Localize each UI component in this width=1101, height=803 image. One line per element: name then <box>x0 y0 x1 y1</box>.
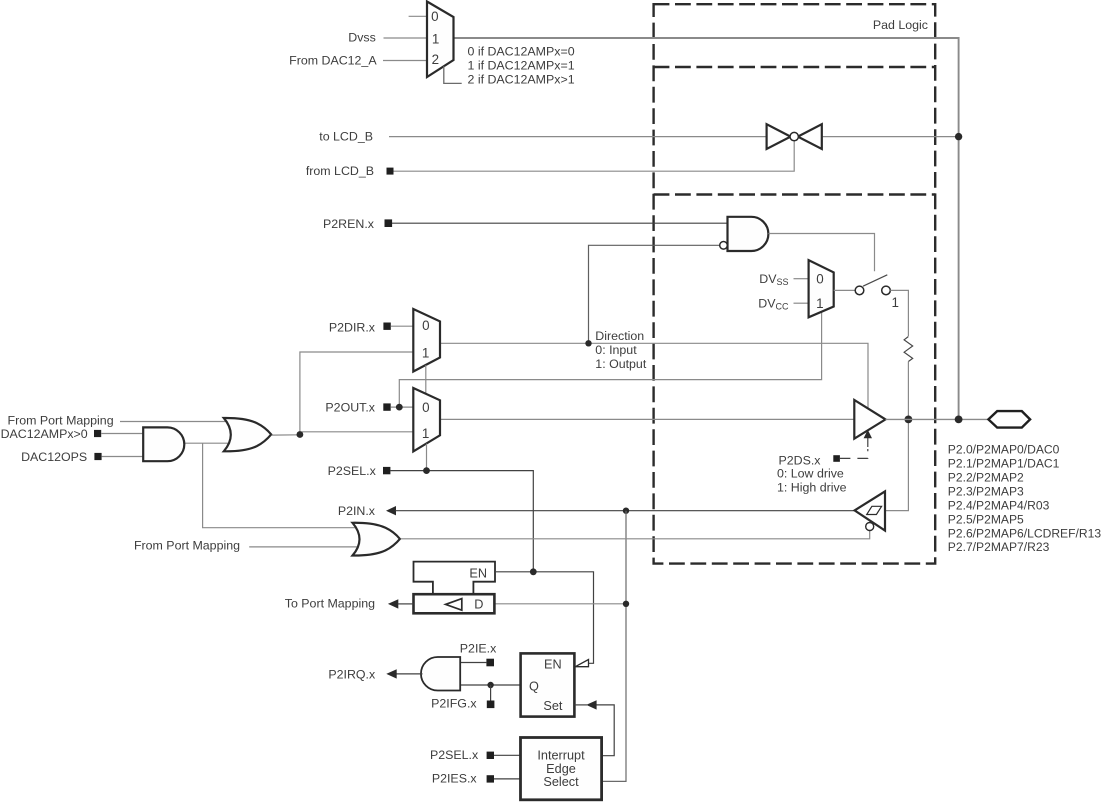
svg-text:P2DS.x: P2DS.x <box>778 453 821 467</box>
svg-text:Select: Select <box>543 775 579 789</box>
dashed divider LCD section bottom <box>654 193 936 195</box>
svg-text:P2IE.x: P2IE.x <box>460 642 497 656</box>
wire P2IN vertical to interrupt logic <box>602 511 626 782</box>
EN triangle pin on U12 <box>575 660 588 667</box>
mux U3 pull resistor source select <box>809 260 834 317</box>
svg-text:1: High drive: 1: High drive <box>777 481 847 495</box>
square terminal P2DS.x <box>833 455 840 462</box>
svg-text:P2SEL.x: P2SEL.x <box>430 748 479 762</box>
svg-text:2 if DAC12AMPx>1: 2 if DAC12AMPx>1 <box>468 73 575 87</box>
arrow P2IRQ.x <box>386 669 396 678</box>
svg-text:From Port Mapping: From Port Mapping <box>134 538 240 552</box>
svg-text:Direction: Direction <box>595 329 644 343</box>
label drive strength legend <box>777 467 847 495</box>
svg-text:1 if DAC12AMPx=1: 1 if DAC12AMPx=1 <box>468 59 575 73</box>
and gate U2 pullup enable <box>720 217 769 251</box>
node Q line at P2IFG <box>487 682 493 688</box>
svg-text:P2IFG.x: P2IFG.x <box>431 697 477 711</box>
wire stub U1 input 0 <box>409 15 427 17</box>
wire U11 output to To Port Mapping <box>398 603 414 605</box>
wire P2REN.x to U2 input <box>392 222 729 224</box>
wire Q output to U13 <box>461 684 521 686</box>
wire U1 output rail to pad node <box>454 38 959 419</box>
label U1 select cases <box>468 45 575 87</box>
select wire U5 to P2SEL <box>426 444 428 471</box>
node P2OUT <box>396 404 403 411</box>
wire OR1 output to U5 input 1 <box>300 432 413 435</box>
wire from LCD_B to T1 gate <box>394 141 795 172</box>
svg-text:0: 0 <box>422 318 429 333</box>
wire Direction to U2 bubbled input <box>589 245 720 343</box>
driver amplifier U9 <box>854 400 885 439</box>
label Direction legend <box>595 329 647 371</box>
or gate U7 module direction <box>224 418 271 451</box>
node EN line at P2SEL vertical <box>530 568 537 575</box>
square terminal P2SEL.x <box>383 467 390 474</box>
svg-text:EN: EN <box>469 566 487 580</box>
node U7 output <box>297 431 304 438</box>
wire U2 output to switch control <box>768 234 874 272</box>
node D line at P2IN vertical <box>623 601 629 607</box>
wire From Port Mapping to OR1 <box>120 421 235 423</box>
pad hexagon <box>988 411 1030 428</box>
wire OR1 output to U4 input 1 <box>300 352 413 435</box>
svg-text:1: 1 <box>891 295 898 310</box>
node P2IN branch <box>623 508 629 514</box>
svg-text:1: Output: 1: Output <box>595 357 647 371</box>
wire P2IFG.x to Q node <box>490 685 492 701</box>
latch U11 D box <box>414 594 495 613</box>
svg-text:P2.6/P2MAP6/LCDREF/R13: P2.6/P2MAP6/LCDREF/R13 <box>948 526 1101 540</box>
svg-text:P2DIR.x: P2DIR.x <box>329 320 376 334</box>
svg-text:EN: EN <box>544 657 562 671</box>
svg-text:0: Input: 0: Input <box>595 343 637 357</box>
svg-text:P2IN.x: P2IN.x <box>338 504 376 518</box>
svg-text:0: 0 <box>422 400 429 415</box>
wire U12 Set stub <box>574 704 587 706</box>
wire P2IES.x to U14 <box>494 778 521 780</box>
svg-text:Q: Q <box>529 680 539 694</box>
svg-text:1: 1 <box>816 296 823 311</box>
svg-text:0: 0 <box>816 271 823 286</box>
svg-text:DAC12AMPx>0: DAC12AMPx>0 <box>1 427 88 441</box>
wire Dvss to U1 input 1 <box>384 37 428 39</box>
mux U4 P2DIR direction select <box>413 309 440 372</box>
square terminal P2REN.x <box>385 219 393 227</box>
svg-text:to LCD_B: to LCD_B <box>319 129 373 143</box>
wire resistor to pad line and schmitt input <box>885 362 908 511</box>
svg-text:P2.5/P2MAP5: P2.5/P2MAP5 <box>948 512 1024 526</box>
transmission gate T1 <box>767 124 822 149</box>
node resistor at pad line <box>905 416 913 424</box>
wire switch to resistor <box>890 290 908 336</box>
node on rail at LCD wire <box>955 133 962 140</box>
svg-text:0 if DAC12AMPx=0: 0 if DAC12AMPx=0 <box>468 45 575 59</box>
svg-text:from LCD_B: from LCD_B <box>306 164 374 178</box>
svg-text:0: 0 <box>431 9 438 24</box>
square terminal P2IFG.x <box>487 701 495 709</box>
square terminal P2OUT.x <box>383 403 390 410</box>
dashed wire P2DS.x to driver <box>840 449 868 458</box>
svg-text:1: 1 <box>432 32 439 47</box>
switch S1 resistor enable <box>855 275 890 295</box>
square terminal P2IES.x <box>487 775 494 782</box>
square terminal P2SEL.x interrupt <box>487 752 494 759</box>
interrupt edge select box U14 <box>521 738 602 800</box>
wire P2DIR.x to U4 input 0 <box>391 325 414 327</box>
arrow P2DS into driver <box>864 430 872 438</box>
svg-text:P2.1/P2MAP1/DAC1: P2.1/P2MAP1/DAC1 <box>948 457 1060 471</box>
svg-text:P2.0/P2MAP0/DAC0: P2.0/P2MAP0/DAC0 <box>948 443 1060 457</box>
arrow P2IN.x <box>386 506 396 515</box>
mux U5 P2OUT data select <box>413 388 440 451</box>
and gate U6 DAC12 control <box>143 427 184 461</box>
svg-text:0: Low drive: 0: Low drive <box>777 467 844 481</box>
dashed divider LCD section top <box>654 66 936 68</box>
svg-text:Edge: Edge <box>546 762 576 776</box>
and gate U13 interrupt flag <box>421 657 460 691</box>
node pad line rail <box>955 416 963 424</box>
wire U4 output Direction to driver enable <box>440 343 868 409</box>
interrupt flip flop U12 <box>521 653 575 716</box>
node Direction <box>585 340 591 346</box>
wire U11 EN to P2SEL net and interrupt EN <box>495 572 594 664</box>
mux U1 DAC12 output select <box>427 2 454 78</box>
wire U7 output to node <box>272 434 300 436</box>
square terminal P2IE.x <box>486 659 494 667</box>
wire U5 output to driver U9 <box>440 418 855 420</box>
square terminal from LCD_B <box>387 168 394 175</box>
wire U3 select from P2OUT node <box>399 312 821 407</box>
wire DVcc stub <box>794 302 809 304</box>
schmitt trigger input buffer U10 <box>855 491 885 530</box>
square terminal DAC12OPS <box>94 453 101 460</box>
wire T1 to pad rail <box>821 136 959 138</box>
svg-text:Pad Logic: Pad Logic <box>873 18 928 32</box>
wire U11 D input from P2IN vertical <box>494 603 626 605</box>
wire P2SEL.x net to EN latch <box>390 471 533 572</box>
wire DAC12AMPx>0 to U6 <box>101 433 144 435</box>
wire U6 output to OR1 and branch to OR2 <box>183 442 234 444</box>
wire branch down to OR2 input <box>203 443 356 528</box>
wire U13 output to P2IRQ.x <box>396 673 423 675</box>
svg-text:1: 1 <box>422 426 429 441</box>
wire P2SEL.x to U14 <box>494 754 521 756</box>
svg-text:D: D <box>474 598 483 612</box>
pin list labels <box>948 443 1101 555</box>
wire From Port Mapping to OR2 <box>249 546 360 548</box>
wire to LCD_B to T1 <box>389 136 768 138</box>
svg-text:2: 2 <box>432 52 439 67</box>
wire P2OUT.x to U5 input 0 <box>391 406 414 408</box>
svg-text:P2OUT.x: P2OUT.x <box>325 401 375 415</box>
wire Set input from edge select <box>596 705 614 756</box>
arrow Set input <box>586 700 596 709</box>
svg-text:P2IES.x: P2IES.x <box>432 772 478 786</box>
svg-text:From Port Mapping: From Port Mapping <box>8 414 114 428</box>
latch U11 EN box <box>414 562 496 595</box>
wire U3 output to switch <box>834 289 856 291</box>
svg-text:Interrupt: Interrupt <box>537 749 585 763</box>
svg-text:P2.7/P2MAP7/R23: P2.7/P2MAP7/R23 <box>948 540 1050 554</box>
svg-text:To Port Mapping: To Port Mapping <box>285 597 375 611</box>
wire From DAC12_A to U1 input 2 <box>383 60 427 62</box>
svg-text:P2IRQ.x: P2IRQ.x <box>328 667 376 681</box>
square terminal P2DIR.x <box>383 323 390 330</box>
wire U8 output to schmitt enable bubble <box>401 531 870 539</box>
wire P2IE.x to U13 <box>461 662 487 664</box>
wire DAC12OPS to U6 <box>102 456 145 458</box>
node P2SEL at U5 select <box>423 467 430 474</box>
svg-text:From DAC12_A: From DAC12_A <box>289 53 377 67</box>
svg-text:P2SEL.x: P2SEL.x <box>328 464 377 478</box>
or gate U8 input buffer disable <box>353 523 400 556</box>
svg-text:P2.2/P2MAP2: P2.2/P2MAP2 <box>948 471 1024 485</box>
wire schmitt output to P2IN.x <box>396 510 856 512</box>
svg-text:P2.3/P2MAP3: P2.3/P2MAP3 <box>948 484 1024 498</box>
dashed box Pad Logic outer <box>654 4 936 563</box>
svg-text:Dvss: Dvss <box>348 30 376 44</box>
square terminal DAC12AMPx>0 <box>94 430 101 437</box>
U1 select stub <box>444 66 462 83</box>
wire driver output to pad <box>886 418 989 420</box>
svg-text:P2.4/P2MAP4/R03: P2.4/P2MAP4/R03 <box>948 498 1050 512</box>
svg-text:DAC12OPS: DAC12OPS <box>21 450 87 464</box>
wire DVss stub <box>794 278 809 280</box>
resistor R1 <box>904 337 913 362</box>
select wire between U4 and U5 <box>425 365 427 394</box>
svg-text:P2REN.x: P2REN.x <box>323 217 375 231</box>
svg-text:1: 1 <box>422 346 429 361</box>
svg-text:Set: Set <box>543 699 563 713</box>
arrow To Port Mapping <box>388 599 398 608</box>
